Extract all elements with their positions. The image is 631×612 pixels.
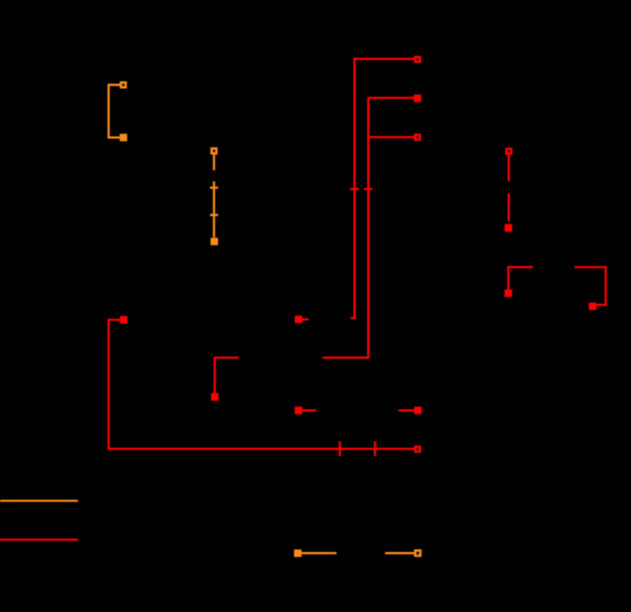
pin P6 (open square) right chain top xyxy=(506,149,511,154)
wire W7: top terminal horizontal xyxy=(355,58,415,60)
wire W3: chain lower segment xyxy=(213,181,215,237)
junction J4 (filled square) middle terminal xyxy=(414,95,422,103)
wire W4: left orange rail xyxy=(0,500,78,502)
wire W12: right chain upper segment xyxy=(508,155,510,182)
wire W9: middle terminal horizontal xyxy=(368,97,414,99)
pin P7 (open square) big bracket right end xyxy=(415,447,420,452)
wire W6: bottom orange right segment xyxy=(385,552,414,554)
junction J10 (filled square) with stub at y=319 xyxy=(295,316,303,324)
pin P2 (open square) top of vertical chain xyxy=(212,148,217,153)
junction J11 (filled square) left of pair y=410 xyxy=(295,407,303,415)
pin P3 (open square) bottom orange right xyxy=(415,550,420,555)
pin P1 (open square) top-left bracket top xyxy=(121,82,126,87)
wire W18: stub right of J10 xyxy=(302,318,308,320)
junction J3 (filled square) bottom orange left xyxy=(294,549,302,557)
wire W8: long vertical with bottom-left stub xyxy=(351,58,355,318)
pin P4 (open square) top terminal xyxy=(415,57,420,62)
pin P5 (open square) lower terminal xyxy=(415,135,420,140)
junction J9 (filled square) middle corner bottom xyxy=(211,393,219,401)
wire W5: bottom orange left segment xyxy=(302,552,337,554)
junction J2 (filled square) chain bottom xyxy=(211,238,219,246)
wire W17: middle corner xyxy=(215,358,239,394)
junction J5 (filled square) right chain bottom xyxy=(505,224,513,232)
red nets xyxy=(0,57,606,540)
wire W21: left red rail xyxy=(0,539,78,541)
tick T5 on bottom bus xyxy=(339,441,341,456)
junction J8 (filled square) big bracket top xyxy=(120,316,128,324)
junction J7 (filled square) right corner 2 end xyxy=(589,303,597,311)
wire W10: lower terminal horizontal xyxy=(368,136,414,138)
junction J6 (filled square) right corner 1 xyxy=(505,289,513,297)
wire W19: stub right of J11 xyxy=(302,409,316,411)
tick T6 on bottom bus xyxy=(374,441,376,456)
wire W1: top-left bracket xyxy=(109,85,121,138)
wire W2: chain upper segment xyxy=(213,154,215,170)
tick T2 on chain xyxy=(210,214,218,216)
wire W14: right corner 1 xyxy=(508,267,533,290)
wire W20: stub left of J12 xyxy=(399,409,414,411)
orange nets xyxy=(0,82,421,557)
wire W11: second vertical turning left xyxy=(323,98,369,358)
junction J12 (filled square) right of pair y=410 xyxy=(414,407,422,415)
wire W13: right chain lower segment xyxy=(508,193,510,221)
tick T3 on vertical 1 xyxy=(350,188,358,190)
junction J1 (filled square) bracket bottom xyxy=(120,134,128,142)
wire W15: right corner 2 xyxy=(575,267,606,305)
tick T4 on vertical 2 xyxy=(364,188,372,190)
tick T1 on chain xyxy=(210,187,218,189)
wire W16: big bracket xyxy=(109,320,415,449)
